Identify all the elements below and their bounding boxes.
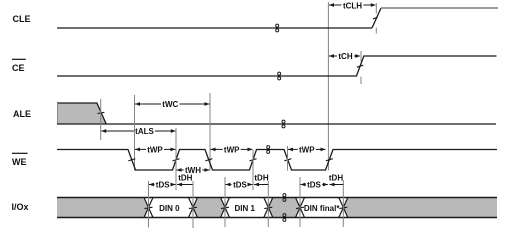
CE edge tick [357,65,363,67]
measure bar at WE rise1 [175,128,177,190]
tALS annotation [101,129,106,133]
svg-text:tWP: tWP [147,145,163,154]
I/Ox bus break symbols [283,194,286,197]
I/Ox bus gray segment 4 [343,198,497,218]
ALE edge tick [97,112,104,113]
I/Ox bus gray segment 2 [193,198,225,218]
tDS annotation 1 [149,183,154,187]
WE edge tick (fall 2) [205,159,212,161]
measure bar at WE fall3 [287,146,289,171]
ALE high pulse (gray trapezoid) [57,103,106,124]
tDS annotation 3 [301,183,306,187]
svg-text:I/Ox: I/Ox [12,202,29,212]
svg-text:tDH: tDH [254,174,268,183]
I/Ox bus bottom edge [57,217,497,219]
I/Ox crossover 6 [339,198,348,218]
ALE low line [57,123,496,125]
CLE line break symbol [276,24,279,27]
tDS/tDH measure bars (cell 1) [148,181,150,228]
vertical reference line (gray, x=328.4) [327,2,329,171]
I/Ox crossover 3 [221,198,230,218]
svg-text:DIN final*: DIN final* [304,204,340,213]
measure bar at WE rise2 [252,150,254,190]
tDS/tDH measure bars (cell 3) [299,177,301,227]
svg-text:tDS: tDS [233,180,247,189]
svg-text:CE: CE [12,63,25,73]
CE line break symbol [278,72,281,75]
tWP annotation 3 [288,148,293,152]
svg-text:tDH: tDH [178,174,192,183]
ALE line break symbol [282,120,285,123]
I/Ox bus top edge [57,197,497,199]
WE edge tick (fall 1) [128,159,135,161]
tDH annotation 1 [177,183,182,187]
tDH annotation 2 [254,183,259,187]
WE edge tick (rise 2) [250,159,257,161]
I/Ox crossover 1 [144,198,153,218]
svg-text:tWP: tWP [224,145,240,154]
tCLH annotation [329,3,334,7]
tCH annotation [329,54,334,58]
I/Ox crossover 5 [296,198,305,218]
svg-text:tWP: tWP [299,145,315,154]
CLE edge tick [373,17,378,19]
tDS/tDH measure bars (cell 2) [224,177,226,227]
svg-text:tDS: tDS [156,180,170,189]
tDS annotation 2 [226,183,231,187]
WE edge tick (rise 1) [173,159,180,161]
svg-text:tCH: tCH [338,52,352,61]
WE edge tick (rise 3) [326,159,333,161]
WE waveform [57,150,497,171]
tDH annotation 3 [329,183,334,187]
CLE waveform: low line [57,27,372,29]
tCH measure bar at edge [360,51,362,62]
tWH annotation [177,168,182,172]
WE edge tick (fall 3) [284,159,291,161]
I/Ox bus gray segment 3 [268,198,300,218]
CLE high line (gray) [381,7,498,9]
svg-text:WE: WE [12,157,27,167]
svg-text:CLE: CLE [13,14,31,24]
svg-text:tWC: tWC [162,100,178,109]
tWP annotation 2 [211,148,216,152]
tALS measure bar [100,99,102,140]
CLE rising edge [372,8,381,28]
svg-text:tDS: tDS [307,180,321,189]
I/Ox crossover 4 [264,198,273,218]
svg-text:tDH: tDH [329,174,343,183]
tWC annotation [135,102,140,106]
tCLH measure bar at edge [375,3,377,14]
svg-text:tALS: tALS [135,127,154,136]
tWC measure bars [134,95,136,171]
WE line break symbol [267,146,270,149]
svg-text:tCLH: tCLH [343,1,362,10]
I/Ox crossover 2 [189,198,198,218]
svg-text:DIN 0: DIN 0 [159,204,180,213]
CE waveform [57,56,497,76]
I/Ox bus gray segment 1 [57,198,149,218]
svg-text:ALE: ALE [13,109,31,119]
tWP annotation 1 [135,148,140,152]
svg-text:DIN 1: DIN 1 [234,204,255,213]
